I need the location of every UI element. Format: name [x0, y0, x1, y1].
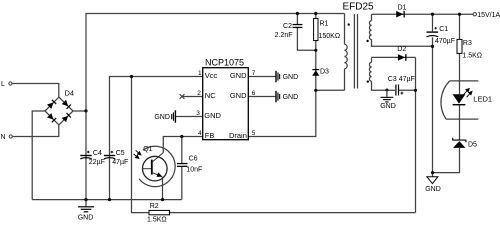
svg-text:GND: GND — [380, 103, 396, 110]
svg-text:47µF: 47µF — [112, 159, 128, 166]
svg-text:C1: C1 — [439, 26, 448, 33]
svg-text:470µF: 470µF — [435, 38, 455, 45]
svg-text:2: 2 — [197, 90, 201, 97]
svg-text:150KΩ: 150KΩ — [319, 33, 341, 40]
svg-text:C3 47µF: C3 47µF — [388, 76, 415, 83]
svg-text:R2: R2 — [150, 203, 159, 210]
svg-text:Vcc: Vcc — [205, 71, 218, 80]
svg-text:10nF: 10nF — [186, 167, 202, 174]
svg-text:R1: R1 — [320, 21, 329, 28]
svg-text:D5: D5 — [468, 142, 477, 149]
svg-text:1: 1 — [198, 70, 202, 77]
svg-text:D4: D4 — [65, 88, 75, 97]
svg-text:GND: GND — [425, 186, 441, 193]
svg-text:Drain: Drain — [229, 131, 247, 140]
svg-text:D1: D1 — [398, 4, 407, 11]
svg-text:D2: D2 — [397, 46, 406, 53]
svg-text:5: 5 — [252, 130, 256, 137]
svg-text:1.5KΩ: 1.5KΩ — [147, 216, 167, 223]
svg-text:D3: D3 — [320, 68, 329, 75]
svg-text:GND: GND — [230, 91, 247, 100]
svg-text:3: 3 — [196, 110, 200, 117]
svg-text:GND: GND — [283, 94, 299, 101]
svg-text:C4: C4 — [93, 150, 102, 157]
svg-text:NCP1075: NCP1075 — [205, 57, 244, 67]
svg-text:C5: C5 — [116, 150, 125, 157]
svg-text:FB: FB — [205, 131, 215, 140]
svg-text:C6: C6 — [189, 156, 198, 163]
svg-text:GND: GND — [154, 114, 170, 121]
svg-text:4: 4 — [198, 130, 202, 137]
svg-text:2.2nF: 2.2nF — [275, 32, 293, 39]
svg-text:1.5KΩ: 1.5KΩ — [462, 52, 482, 59]
svg-text:GND: GND — [283, 74, 299, 81]
svg-text:GND: GND — [230, 71, 247, 80]
svg-text:C2: C2 — [283, 23, 292, 30]
svg-text:15V/1A: 15V/1A — [477, 12, 500, 19]
svg-text:N: N — [1, 134, 6, 141]
svg-text:LED1: LED1 — [473, 94, 492, 103]
svg-text:GND: GND — [78, 214, 94, 221]
svg-text:6: 6 — [252, 90, 256, 97]
svg-text:Q1: Q1 — [143, 146, 152, 153]
svg-text:22µF: 22µF — [89, 159, 105, 166]
svg-text:GND: GND — [204, 111, 221, 120]
svg-text:EFD25: EFD25 — [343, 2, 375, 13]
svg-text:7: 7 — [252, 70, 256, 77]
svg-text:L: L — [1, 81, 5, 88]
svg-text:NC: NC — [205, 91, 216, 100]
svg-text:R3: R3 — [463, 40, 472, 47]
